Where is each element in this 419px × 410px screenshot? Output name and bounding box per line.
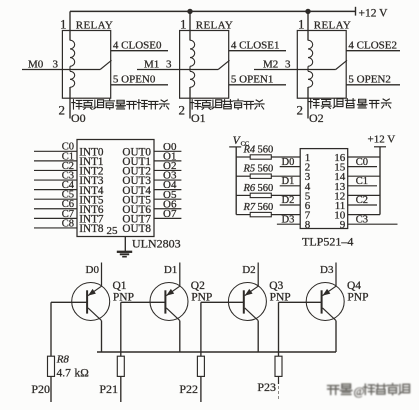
svg-text:3: 3 xyxy=(53,59,59,71)
svg-text:R8: R8 xyxy=(56,353,70,365)
svg-text:8: 8 xyxy=(305,219,311,231)
U1 pin INT7 label xyxy=(79,214,104,226)
+12V power symbol (right) xyxy=(368,134,396,147)
wire: U2 pin 15 to net C0 xyxy=(348,166,377,168)
svg-text:OUT8: OUT8 xyxy=(122,223,151,235)
U2 pin 4 number xyxy=(305,181,311,193)
Q2 collector xyxy=(166,308,180,321)
relay K1 body xyxy=(62,31,110,99)
svg-text:PNP: PNP xyxy=(347,292,368,304)
node C2 (right) xyxy=(356,195,368,206)
node P22 xyxy=(179,382,198,396)
OPEN1 label xyxy=(231,73,273,85)
U1 pin OUT0 label xyxy=(122,147,151,159)
resistor R4 560 xyxy=(250,155,271,159)
node O1 (relay K2 pin 2 net) xyxy=(191,111,206,125)
node C8 xyxy=(62,218,74,229)
OPEN2 label xyxy=(348,73,390,85)
svg-text:5 OPEN0: 5 OPEN0 xyxy=(113,73,156,85)
U1 pin 25 label xyxy=(107,225,119,237)
wire: net C7 to U1 input INT7 xyxy=(34,217,77,219)
svg-text:D3: D3 xyxy=(282,214,295,225)
wire: +12V rail to relay K2 pin 1 xyxy=(189,11,191,40)
wire: resistor to P23 pin (faded) xyxy=(278,376,280,399)
transistor Q2 base bar xyxy=(164,290,166,313)
transistor Q4 body xyxy=(306,283,344,321)
OPEN0 label xyxy=(113,73,156,85)
node C1 (right) xyxy=(356,176,368,187)
wire: net M0 to relay K1 pin 3 xyxy=(22,69,100,71)
Q3 PNP type label xyxy=(270,292,291,304)
U1 pin OUT2 label xyxy=(122,166,151,178)
relay K2 coil xyxy=(190,40,195,87)
node O2 xyxy=(163,160,176,172)
U2 pin 6 number xyxy=(305,200,311,212)
U2 pin 16 number xyxy=(334,152,346,164)
U1 pin OUT7 label xyxy=(122,214,151,226)
wire: net D2 to Q3 emitter xyxy=(257,263,259,287)
U2 pin 9 number xyxy=(340,219,346,231)
Q4 reference label xyxy=(347,280,361,292)
svg-text:C0: C0 xyxy=(356,157,368,168)
node O3 xyxy=(163,170,177,182)
transistor Q3 body xyxy=(228,283,266,321)
Q2 emitter with PNP arrow xyxy=(166,286,180,295)
wire: Vcc to resistor R4 xyxy=(236,156,250,158)
U2 pin 5 number xyxy=(305,190,311,202)
node O6 xyxy=(163,198,177,210)
U1 pin INT0 label xyxy=(79,147,104,159)
wire: Q1 base to resistor xyxy=(50,302,52,356)
svg-text:C3: C3 xyxy=(356,214,368,225)
node D0 xyxy=(86,264,100,276)
svg-text:RELAY: RELAY xyxy=(314,20,351,32)
Q4 PNP type label xyxy=(347,292,368,304)
svg-text:ULN2803: ULN2803 xyxy=(132,236,181,250)
svg-text:D3: D3 xyxy=(320,264,334,276)
wire: net C2 to U1 input INT2 xyxy=(34,169,77,171)
relay K3 function label (接空调致热开关) xyxy=(309,99,391,109)
svg-text:D2: D2 xyxy=(282,195,295,206)
wire: R6 to U2 pin 5 xyxy=(271,194,300,196)
Q3 reference label xyxy=(269,280,283,292)
U2 pin 14 number xyxy=(334,171,346,183)
U1 pin OUT1 label xyxy=(122,156,151,168)
svg-text:M1: M1 xyxy=(144,59,159,71)
node O4 xyxy=(163,179,177,191)
node O0 (relay K1 pin 2 net) xyxy=(71,111,86,125)
wire: relay K1 coil to pin 2 stub xyxy=(69,87,71,119)
Q4 emitter with PNP arrow xyxy=(323,286,337,295)
relay K2 switch arm xyxy=(218,60,229,69)
wire: +12V rail to relay K3 pin 1 xyxy=(307,11,309,40)
transistor Q1 base bar xyxy=(86,290,88,313)
svg-text:560: 560 xyxy=(258,202,274,213)
base resistor (R9) xyxy=(117,356,124,376)
U2 TLP521-4 label xyxy=(302,234,353,248)
svg-text:+12 V: +12 V xyxy=(359,7,389,19)
wire: relay K3 pin 4 CLOSE2 contact xyxy=(346,50,400,52)
U2 pin 8 number xyxy=(305,219,311,231)
Q4 collector xyxy=(323,308,337,321)
svg-text:TLP521–4: TLP521–4 xyxy=(302,234,353,248)
svg-text:1: 1 xyxy=(180,16,187,31)
transistor Q1 body xyxy=(72,283,110,321)
wire: net C1 to U1 input INT1 xyxy=(34,160,77,162)
svg-text:INT8: INT8 xyxy=(79,223,104,235)
wire: Q4 collector to bus xyxy=(335,321,337,352)
wire: U2 pin 11 to net C2 xyxy=(348,204,377,206)
wire: net C3 to U1 input INT3 xyxy=(34,179,77,181)
wire: Q3 base to resistor xyxy=(200,302,202,356)
node C2 xyxy=(62,161,74,172)
wire: resistor to P20 pin xyxy=(50,376,52,402)
wire: U1 output OUT1 to net O1 xyxy=(154,160,181,162)
wire: net D0 to U2 pin 2 xyxy=(280,166,301,168)
U1 pin INT3 label xyxy=(79,175,104,187)
wire: U2 pin 9 to net C3 xyxy=(348,223,398,225)
node C3 xyxy=(62,170,74,181)
svg-text:P23: P23 xyxy=(257,380,276,394)
node D2 xyxy=(282,195,295,206)
wire: relay K1 pin 5 OPEN0 contact xyxy=(111,84,168,86)
svg-text:9: 9 xyxy=(340,219,346,231)
svg-text:D1: D1 xyxy=(282,176,295,187)
wire: Q4 base to resistor xyxy=(278,302,280,356)
Q1 emitter with PNP arrow xyxy=(88,286,102,295)
U1 ULN2803 label xyxy=(132,236,181,250)
U2 pin 12 number xyxy=(334,190,345,202)
base resistor (R8) xyxy=(48,356,55,376)
svg-text:P21: P21 xyxy=(99,382,118,396)
node O5 xyxy=(163,189,177,201)
wire: +12V rail to relay K1 pin 1 xyxy=(69,11,71,40)
U1 pin INT5 label xyxy=(79,194,104,206)
transistor Q4 base bar xyxy=(321,290,323,313)
wire: Q4 base xyxy=(279,301,322,303)
U1 pin INT1 label xyxy=(79,156,103,168)
CLOSE0 label xyxy=(113,39,162,51)
+12V power rail (top) xyxy=(70,7,356,16)
node M1 / pin 3 label xyxy=(144,59,172,71)
node D1 xyxy=(282,176,295,187)
svg-text:Q2: Q2 xyxy=(191,280,205,292)
wire: Q3 collector to bus xyxy=(257,321,259,352)
wire: U1 pin 25 to ground xyxy=(124,237,126,252)
wire: U1 output OUT4 to net O4 xyxy=(154,189,181,191)
node O2 (relay K3 pin 2 net) xyxy=(309,111,324,125)
U2 pin 11 number xyxy=(335,200,346,212)
CLOSE1 label xyxy=(231,39,280,51)
svg-text:2: 2 xyxy=(179,103,186,118)
node D2 xyxy=(242,264,255,276)
wire: net D2 to U2 pin 6 xyxy=(280,204,301,206)
U2 pin 1 number xyxy=(305,152,311,164)
svg-text:3: 3 xyxy=(285,59,291,71)
wire: net C6 to U1 input INT6 xyxy=(34,208,77,210)
relay K2 pin 2 label xyxy=(179,103,186,118)
svg-text:D0: D0 xyxy=(86,264,100,276)
svg-text:1: 1 xyxy=(60,16,67,31)
+12V rail wire (right of U2) xyxy=(379,147,381,215)
wire: net D3 to Q4 emitter xyxy=(335,263,337,287)
svg-text:560: 560 xyxy=(258,164,274,175)
junction dot relay K2 pin1 xyxy=(187,9,192,14)
R5 560 value label xyxy=(243,164,274,175)
svg-text:C2: C2 xyxy=(356,195,368,206)
node D1 xyxy=(164,264,177,276)
U2 pin 7 number xyxy=(305,210,311,222)
svg-text:5 OPEN2: 5 OPEN2 xyxy=(348,73,390,85)
wire: Vcc to resistor R7 xyxy=(236,214,250,216)
resistor R5 560 xyxy=(250,174,271,178)
relay K1 RELAY label xyxy=(76,20,113,32)
relay K3 pin 2 label xyxy=(297,103,304,118)
node C0 (right) xyxy=(356,157,368,168)
wire: U1 output OUT3 to net O3 xyxy=(154,179,181,181)
U2 pin 13 number xyxy=(334,181,346,193)
R4 560 value label xyxy=(243,144,274,155)
svg-text:D2: D2 xyxy=(242,264,255,276)
transistor Q2 body xyxy=(150,283,188,321)
svg-text:1: 1 xyxy=(298,16,305,31)
relay K2 function label (接空调致冷开关) xyxy=(191,99,265,109)
relay K1 pin 1 label xyxy=(60,16,67,31)
wire: U1 output OUT5 to net O5 xyxy=(154,198,181,200)
relay K1 switch arm xyxy=(100,60,111,69)
relay K2 pin 1 label xyxy=(180,16,187,31)
wire: net C4 to U1 input INT4 xyxy=(34,189,77,191)
svg-text:O7: O7 xyxy=(163,208,177,220)
wire: U1 output OUT2 to net O2 xyxy=(154,169,181,171)
node M0 / pin 3 label xyxy=(28,59,59,71)
wire: Q2 base to resistor xyxy=(120,302,122,356)
svg-text:O0: O0 xyxy=(71,111,86,125)
R8 label xyxy=(56,353,70,365)
wire: Vcc to resistor R6 xyxy=(236,194,250,196)
Q3 collector xyxy=(245,308,259,321)
wire: relay K1 pin 4 CLOSE0 contact xyxy=(111,50,168,52)
svg-text:Q3: Q3 xyxy=(269,280,283,292)
node O1 xyxy=(163,150,176,162)
svg-text:3: 3 xyxy=(166,59,172,71)
svg-text:kΩ: kΩ xyxy=(75,368,89,380)
svg-text:Q1: Q1 xyxy=(113,280,127,292)
U1 pin INT4 label xyxy=(79,185,104,197)
relay K3 switch arm xyxy=(336,60,347,69)
svg-text:R4: R4 xyxy=(243,144,256,155)
svg-text:M2: M2 xyxy=(263,59,278,71)
watermark (decorative) xyxy=(328,384,410,398)
relay K2 body xyxy=(180,31,229,99)
wire: net M1 to relay K2 pin 3 xyxy=(137,69,218,71)
R7 560 value label xyxy=(243,202,274,213)
wire: R5 to U2 pin 3 xyxy=(271,175,300,177)
node P23 xyxy=(257,380,276,394)
wire: Q1 collector to bus xyxy=(101,321,103,352)
resistor R6 560 xyxy=(250,193,271,197)
relay K3 RELAY label xyxy=(314,20,351,32)
node D0 xyxy=(282,157,295,168)
wire: relay K3 coil to pin 2 stub xyxy=(307,87,309,119)
Vcc power symbol xyxy=(229,135,249,147)
ground symbol xyxy=(117,252,132,257)
base resistor (R11) xyxy=(275,356,282,376)
node C3 (right) xyxy=(356,214,368,225)
svg-text:O1: O1 xyxy=(191,111,206,125)
U1 pin OUT8 label xyxy=(122,223,151,235)
transistor Q3 base bar xyxy=(243,290,245,313)
relay K3 coil xyxy=(308,40,313,87)
wire: U1 output OUT0 to net O0 xyxy=(154,150,181,152)
svg-text:R5: R5 xyxy=(243,164,256,175)
relay K1 function label (接空调电源控制开关) xyxy=(72,99,169,109)
wire: net M2 to relay K3 pin 3 xyxy=(254,69,336,71)
node C0 xyxy=(62,142,74,153)
wire: U2 pin 10 to +12V rail xyxy=(348,214,380,216)
node M2 / pin 3 label xyxy=(263,59,291,71)
wire: U2 pin 13 to net C1 xyxy=(348,185,377,187)
wire: relay K2 pin 4 CLOSE1 contact xyxy=(229,50,286,52)
svg-text:R6: R6 xyxy=(243,183,256,194)
svg-text:4 CLOSE0: 4 CLOSE0 xyxy=(113,39,162,51)
U1 pin OUT3 label xyxy=(122,175,151,187)
relay K3 body xyxy=(297,31,346,99)
wire: net D3 to U2 pin 8 xyxy=(277,223,300,225)
Vcc rail wire xyxy=(235,147,237,215)
R8 value 4.7k&#937; xyxy=(57,368,89,380)
U1 pin OUT6 label xyxy=(122,204,151,216)
svg-text:RELAY: RELAY xyxy=(76,20,113,32)
wire: R4 to U2 pin 1 xyxy=(271,156,300,158)
svg-text:5 OPEN1: 5 OPEN1 xyxy=(231,73,273,85)
Q3 emitter with PNP arrow xyxy=(245,286,259,295)
wire: Q2 base xyxy=(121,301,166,303)
wire: U2 pin 14 to +12V rail xyxy=(348,175,380,177)
node O0 xyxy=(163,141,177,153)
svg-text:D0: D0 xyxy=(282,157,295,168)
wire: relay K3 pin 5 OPEN2 contact xyxy=(346,84,400,86)
U2 pin 3 number xyxy=(305,171,311,183)
wire: Q1 base xyxy=(51,301,87,303)
wire: net D0 to Q1 emitter xyxy=(101,263,103,287)
node C4 xyxy=(62,180,75,191)
wire: net D1 to Q2 emitter xyxy=(179,263,181,287)
node P21 xyxy=(99,382,118,396)
svg-text:P20: P20 xyxy=(31,382,50,396)
relay K1 pin 2 label xyxy=(59,103,66,118)
svg-text:Q4: Q4 xyxy=(347,280,361,292)
svg-text:4 CLOSE1: 4 CLOSE1 xyxy=(231,39,280,51)
svg-text:O2: O2 xyxy=(309,111,324,125)
wire: net C5 to U1 input INT5 xyxy=(34,198,77,200)
+12 V label (top right) xyxy=(359,7,389,19)
node C6 xyxy=(62,199,74,210)
relay K1 coil xyxy=(70,40,75,87)
Q1 collector xyxy=(88,308,102,321)
svg-text:4 CLOSE2: 4 CLOSE2 xyxy=(348,39,397,51)
svg-text:+12 V: +12 V xyxy=(368,134,396,146)
wire: net C0 to U1 input INT0 xyxy=(34,150,77,152)
wire: R7 to U2 pin 7 xyxy=(271,214,300,216)
CLOSE2 label xyxy=(348,39,397,51)
relay K2 RELAY label xyxy=(196,20,233,32)
node C5 xyxy=(62,190,74,201)
resistor R7 560 xyxy=(250,212,271,216)
svg-text:D1: D1 xyxy=(164,264,177,276)
svg-text:560: 560 xyxy=(258,144,274,155)
Q2 PNP type label xyxy=(191,292,212,304)
wire: relay K2 coil to pin 2 stub xyxy=(189,87,191,119)
U2 pin 10 number xyxy=(334,210,346,222)
junction dot relay K3 pin1 xyxy=(305,9,310,14)
wire: U1 output OUT6 to net O6 xyxy=(154,208,181,210)
Q1 PNP type label xyxy=(113,292,134,304)
U1 pin INT6 label xyxy=(79,204,104,216)
node D3 xyxy=(282,214,295,225)
U1 pin OUT5 label xyxy=(122,194,151,206)
base resistor (R10) xyxy=(197,356,204,376)
wire: U1 output OUT7 to net O7 xyxy=(154,217,181,219)
svg-text:P22: P22 xyxy=(179,382,198,396)
wire: Vcc to resistor R5 xyxy=(236,175,250,177)
U1 pin INT8 label xyxy=(79,223,104,235)
relay K3 pin 1 label xyxy=(298,16,305,31)
wire: net C8 to U1 input INT8 xyxy=(34,227,77,229)
wire: relay K2 pin 5 OPEN1 contact xyxy=(229,84,286,86)
wire: U2 pin 16 to +12V rail xyxy=(348,156,380,158)
wire: U2 pin 12 to +12V rail xyxy=(348,194,380,196)
node O7 xyxy=(163,208,177,220)
wire: Q2 collector to bus xyxy=(179,321,181,352)
svg-text:C8: C8 xyxy=(62,218,74,229)
node D3 xyxy=(320,264,334,276)
wire: resistor to P22 pin xyxy=(200,376,202,402)
wire: resistor to P21 pin xyxy=(120,376,122,402)
R6 560 value label xyxy=(243,183,274,194)
wire: Q3 base xyxy=(201,301,244,303)
svg-text:C1: C1 xyxy=(356,176,368,187)
U1 pin INT2 label xyxy=(79,166,103,178)
svg-text:M0: M0 xyxy=(28,59,44,71)
U1 pin OUT4 label xyxy=(122,185,151,197)
driver IC U1 ULN2803 body xyxy=(77,140,154,237)
svg-text:2: 2 xyxy=(297,103,304,118)
node C1 xyxy=(62,151,74,162)
U2 pin 2 number xyxy=(305,162,311,174)
svg-text:560: 560 xyxy=(258,183,274,194)
Q2 reference label xyxy=(191,280,205,292)
svg-text:R7: R7 xyxy=(243,202,256,213)
svg-text:RELAY: RELAY xyxy=(196,20,233,32)
svg-text:@: @ xyxy=(354,384,365,398)
wire: net D1 to U2 pin 4 xyxy=(280,185,301,187)
svg-text:25: 25 xyxy=(107,225,119,237)
node P20 xyxy=(31,382,50,396)
svg-text:4.7: 4.7 xyxy=(57,368,72,380)
opto-isolator U2 TLP521-4 body xyxy=(300,149,348,229)
collector bus wire (bottom) xyxy=(97,351,336,353)
node C7 xyxy=(62,209,74,220)
U2 pin 15 number xyxy=(334,162,346,174)
svg-text:2: 2 xyxy=(59,103,66,118)
Q1 reference label xyxy=(113,280,127,292)
